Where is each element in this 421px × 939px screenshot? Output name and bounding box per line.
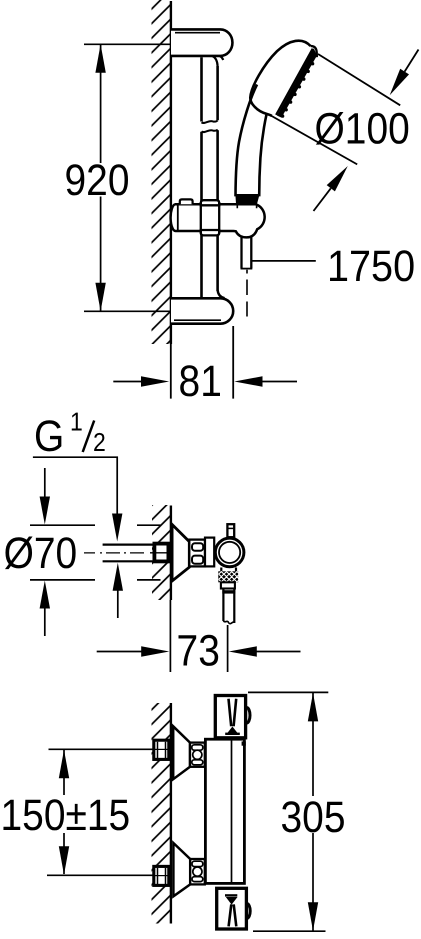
- hose (side view) with crimp and torn end: [222, 589, 235, 624]
- svg-text:920: 920: [65, 156, 130, 205]
- temperature handle (bottom view, top): [215, 696, 250, 738]
- hand shower head (dome outline): [250, 41, 310, 116]
- bottom wall bracket of shower rail: [171, 298, 233, 323]
- wall line bottom section: [170, 703, 172, 924]
- knurled hose nut (side view, diamond pattern): [218, 571, 239, 582]
- dimension 81: dimension line and arrows: [113, 376, 297, 386]
- lower wall union nut (bottom view): [154, 866, 169, 885]
- volume handle (bottom view, bottom): [217, 888, 251, 929]
- svg-text:305: 305: [281, 793, 346, 842]
- label G 1/2: leader with down arrow: [33, 457, 123, 541]
- wall hatching top section: [152, 0, 171, 344]
- svg-text:G: G: [34, 412, 64, 461]
- spray face nozzle scallops: [281, 62, 314, 118]
- hand shower nose cap: [311, 46, 317, 57]
- dimension 73: extension lines: [170, 600, 227, 672]
- dimension 305: dimension line and arrows: [308, 692, 318, 930]
- handle bottom knurled cone (dark): [236, 195, 258, 206]
- hose coupling (side view): [221, 582, 235, 588]
- dimension 81: extension lines: [171, 326, 233, 399]
- hand shower face rim line: [276, 49, 313, 115]
- label 1750: leader line: [252, 260, 316, 262]
- hose continuation dash-dot line: [246, 270, 248, 317]
- dimension 920: dimension line: [100, 44, 102, 311]
- dimension 150+-15: dimension line and arrows: [59, 750, 69, 875]
- dimension O100: tangent line lower: [269, 115, 357, 165]
- thermostat body (bottom view): [205, 739, 245, 883]
- label G 1/2: text: [34, 406, 106, 461]
- union nut with knurling (side view): [189, 540, 205, 567]
- lower union nut knurled (bottom view): [190, 859, 205, 884]
- svg-text:2: 2: [93, 427, 106, 457]
- dimension O70: arrows: [40, 468, 50, 636]
- shower hose below holder: [241, 236, 253, 269]
- thermostat handle circle (side view): [215, 538, 244, 567]
- holder clamp knob: [180, 199, 193, 204]
- dimension 73: dimension line and arrows: [97, 646, 301, 656]
- wall line top section: [170, 1, 172, 344]
- upper wall union nut (bottom view): [154, 740, 169, 759]
- wall nut G1/2 (side view): [150, 544, 168, 562]
- svg-text:1750: 1750: [327, 242, 415, 291]
- wall hatching middle section: [152, 505, 170, 600]
- dimension O100: upper arrow: [390, 50, 419, 96]
- dimension 920: arrowheads: [95, 44, 105, 73]
- hand shower handle: [259, 114, 266, 196]
- svg-text:1: 1: [70, 406, 83, 436]
- svg-text:150±15: 150±15: [1, 791, 131, 840]
- dimension 305: extension lines: [248, 692, 328, 931]
- shower rail (vertical bar with break symbol): [202, 57, 225, 298]
- dimension 150+-15: extension lines: [47, 749, 154, 875]
- upper escutcheon cone (bottom view): [173, 726, 190, 779]
- slider holder on rail: [171, 199, 265, 237]
- upper union nut knurled (bottom view): [190, 743, 205, 767]
- svg-text:81: 81: [179, 357, 222, 406]
- dimension O70: extension lines: [30, 525, 161, 580]
- G1/2 supply pipe (side view): [84, 545, 154, 562]
- wall hatching bottom section: [152, 703, 171, 924]
- dimension O100: tangent line upper: [318, 54, 400, 105]
- shut-off knob on top (side view): [227, 524, 234, 537]
- wall line middle section: [170, 506, 172, 601]
- valve neck (side view): [205, 538, 214, 567]
- escutcheon cone (side view): [172, 525, 189, 582]
- spray face dark band: [278, 50, 317, 117]
- outlet neck below circle: [221, 568, 236, 572]
- svg-text:Ø100: Ø100: [315, 105, 410, 154]
- lower escutcheon cone (bottom view): [173, 843, 190, 896]
- dimension 920: extension lines: [84, 44, 170, 311]
- label G 1/2: up arrow to pipe: [113, 563, 123, 618]
- svg-text:73: 73: [177, 627, 220, 676]
- top wall bracket of shower rail: [171, 29, 232, 66]
- dimension O100: lower arrow: [314, 166, 348, 211]
- svg-text:Ø70: Ø70: [4, 529, 78, 578]
